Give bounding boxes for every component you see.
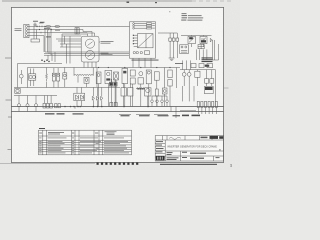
- scan grain overlay: [0, 0, 240, 170]
- title block mid rule: [165, 155, 180, 157]
- table column rules: [43, 130, 103, 155]
- scan artifact top edge: [2, 0, 192, 2]
- module cluster P7: [146, 70, 151, 84]
- wire right riser: [212, 44, 219, 60]
- wire U1 drops: [133, 58, 151, 67]
- title block outline: [155, 136, 223, 161]
- under-bus bracket label 1: [121, 115, 130, 116]
- U1 aux contact pair 2: [140, 51, 142, 53]
- terminal strip row: [197, 101, 199, 107]
- wire drops center: [78, 68, 97, 88]
- lamp DS1: [17, 104, 20, 107]
- caption small bracket right: [175, 62, 183, 65]
- wire drop x70: [67, 36, 71, 64]
- ammeter M2: [85, 50, 94, 59]
- wire secondary rail: [18, 64, 63, 88]
- resistor R8: [155, 89, 158, 96]
- diode D5: [96, 96, 98, 100]
- wire top relay rail: [181, 35, 212, 47]
- wires central band verticals: [99, 68, 177, 107]
- wire stubs left of meter box: [56, 39, 81, 47]
- title block lower rules: [165, 151, 223, 161]
- fuse F1: [169, 38, 172, 41]
- U1 row labels: [152, 23, 155, 28]
- contact grid X1: [198, 45, 204, 49]
- fold mark left 2: [6, 99, 12, 101]
- module Q3: [84, 77, 89, 83]
- under-bus bracket label 3: [158, 115, 169, 116]
- parts table outline: [39, 130, 132, 155]
- bus label box: [45, 113, 84, 114]
- wire phase C: [28, 32, 88, 34]
- rail segment y87: [14, 87, 120, 89]
- capacitor C6: [114, 102, 117, 106]
- lower-left rail: [14, 95, 57, 97]
- table header text: [39, 131, 116, 134]
- table body text rows: [39, 138, 129, 154]
- ammeter needle: [88, 53, 93, 57]
- meter box M: [81, 36, 99, 62]
- control unit U1 box: [130, 22, 156, 58]
- amplifier A1 sub-box: [138, 34, 154, 48]
- diode D3: [81, 95, 84, 100]
- module cluster P2: [105, 70, 112, 83]
- module cluster P6: [139, 72, 143, 76]
- approval stamp dark text: [201, 136, 224, 139]
- lamp DS3: [34, 104, 37, 107]
- contact block row: [191, 64, 196, 68]
- diode D4: [92, 96, 94, 100]
- module cluster P5: [130, 70, 135, 76]
- motor M3: [15, 88, 20, 93]
- terminal label TB1: [31, 39, 40, 42]
- contactor K6: [187, 73, 191, 77]
- relay K3 box: [180, 45, 189, 54]
- scale tick bar: [97, 162, 139, 164]
- relay K2 armature dark: [201, 40, 206, 42]
- wires through fuses: [170, 33, 177, 58]
- wire left riser: [27, 68, 29, 88]
- title block left column: [155, 140, 165, 161]
- under-bus bracket label 4: [173, 115, 181, 116]
- terminal TB2: [110, 83, 117, 86]
- terminal bars row 1: [202, 57, 213, 62]
- ground G1: [74, 107, 76, 109]
- inductor L1: [74, 74, 93, 75]
- connector J1 pin 1: [25, 25, 27, 27]
- right rail segment: [180, 69, 215, 71]
- diode D2: [76, 95, 79, 100]
- diode D9 arrow: [210, 38, 212, 41]
- relay K1 coil glyph: [189, 38, 194, 43]
- table header rule: [39, 135, 132, 137]
- relay K1 box: [188, 36, 195, 43]
- table row rules: [39, 140, 132, 152]
- rectifier CR1 cluster: [121, 88, 126, 96]
- contactor K5: [182, 73, 186, 77]
- wire loop from connector area down: [62, 34, 65, 47]
- relay K3 contacts: [181, 46, 183, 48]
- wire main upper rail: [28, 67, 181, 69]
- copyright line: [160, 164, 217, 165]
- ground under fuses: [169, 58, 175, 60]
- contact pair W1: [55, 104, 57, 108]
- label VOLTMETER: [101, 41, 114, 43]
- fold mark left 1: [5, 57, 11, 59]
- sheet inside frame: [11, 7, 223, 162]
- junction ticks on phase wires: [37, 26, 52, 34]
- module cluster P3: [114, 72, 119, 80]
- module D1: [63, 73, 67, 79]
- capacitor bank C7: [205, 79, 209, 84]
- connector J1 pin 3: [25, 31, 27, 33]
- parts table caption: [39, 128, 45, 129]
- relay K7 dark cluster: [205, 87, 213, 90]
- company logo: [156, 156, 165, 161]
- junction dots on rail: [98, 67, 171, 68]
- module Z2: [57, 73, 60, 81]
- scan artifact bottom edge: [0, 162, 95, 164]
- fuse F3: [176, 38, 179, 41]
- voltmeter needle: [88, 42, 93, 46]
- main bus: [12, 106, 224, 108]
- wire bus feeders: [44, 52, 129, 55]
- wire bends into meters: [62, 34, 88, 36]
- module cluster P8: [154, 72, 159, 80]
- A1 pin stubs: [134, 35, 138, 46]
- lamp DS2: [26, 104, 29, 107]
- U1 input row 1: [133, 23, 135, 25]
- signature scribble: [169, 137, 181, 139]
- capacitor C1: [33, 23, 36, 27]
- capacitor C5: [110, 102, 113, 106]
- cell texts lower: [167, 152, 220, 159]
- right mid risers: [183, 60, 191, 69]
- right under labels: [182, 115, 200, 117]
- wire phase A: [28, 25, 130, 27]
- left column entries: [156, 141, 164, 152]
- mid wire labels: [39, 23, 60, 31]
- fold mark right: [224, 87, 229, 89]
- transistor Q2 module: [29, 74, 36, 80]
- module Z1: [52, 73, 55, 81]
- wire phase N: [28, 36, 45, 52]
- label GEN: [33, 21, 45, 23]
- speck near notes: [169, 10, 170, 13]
- choke L2: [137, 88, 145, 89]
- voltmeter M1: [85, 39, 94, 48]
- lamp row DS4-DS7: [151, 100, 154, 103]
- transistor Q1: [19, 74, 23, 78]
- U1 aux component: [145, 51, 150, 55]
- label AMMETER: [101, 53, 113, 55]
- lower bus: [12, 111, 224, 113]
- fold mark left 3: [8, 149, 12, 151]
- wire meter drops: [84, 62, 96, 68]
- label A1: [46, 36, 51, 39]
- U1 aux contact pair 1: [133, 51, 135, 53]
- connector J1 pin 4: [25, 35, 27, 37]
- wire drop to TB1: [34, 26, 37, 39]
- module Z4: [195, 71, 200, 77]
- junction cluster dots: [41, 59, 50, 62]
- relay K2 glyph: [201, 38, 206, 43]
- bracket ticks: [119, 113, 168, 115]
- wire drops right group: [45, 26, 51, 55]
- resistor R5 vertical: [46, 72, 48, 82]
- label POWER INPUT: [15, 28, 22, 31]
- node dots on phases: [36, 26, 51, 30]
- risers to terminal row: [183, 86, 195, 101]
- resistor R1: [46, 26, 51, 28]
- right second rail: [180, 110, 196, 112]
- wire double riser: [213, 40, 215, 60]
- connector J1 pin 2: [25, 28, 27, 30]
- module cluster P9: [168, 70, 172, 78]
- fold mark left 4: [8, 116, 12, 118]
- bridge box: [74, 93, 85, 100]
- switch S1 contacts: [43, 103, 46, 108]
- diode D6: [101, 96, 103, 100]
- wire phase B: [28, 29, 84, 31]
- resistor R2: [55, 26, 60, 28]
- relay K2 box: [200, 36, 207, 43]
- junction dots on main bus: [64, 106, 149, 108]
- connector J1: [24, 24, 29, 37]
- U1 input row 2: [133, 25, 135, 27]
- current transformer CT1: [75, 28, 79, 34]
- module Z3: [162, 88, 167, 94]
- U1 input row 3: [133, 27, 135, 29]
- fuse F2: [172, 38, 175, 41]
- wire drops from feeders: [48, 52, 55, 62]
- wire meter leader: [99, 42, 100, 54]
- relay K4: [146, 89, 150, 93]
- module cluster P4: [122, 68, 128, 83]
- wires under X1: [197, 49, 207, 60]
- wire link from U1 to fuses: [158, 32, 177, 34]
- amplifier diagonal: [138, 34, 154, 48]
- wire right drop: [171, 107, 176, 119]
- title block top strip: [155, 139, 223, 141]
- module cluster P1: [96, 72, 101, 84]
- top specks: [127, 2, 158, 4]
- notes text block: [181, 13, 203, 20]
- under-bus bracket label 2: [139, 115, 150, 116]
- caption under U1: [132, 59, 159, 62]
- paper background: [0, 0, 240, 170]
